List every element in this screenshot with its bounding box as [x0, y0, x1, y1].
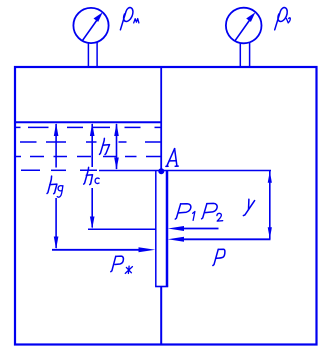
gauge V1 stem: [240, 43, 249, 68]
liquid dashes row 2: [20, 141, 161, 143]
liquid dashes row 4: [21, 169, 97, 171]
force P1 line with left arrow: [168, 226, 219, 231]
gauge V1 needle: [235, 12, 255, 40]
label P1: [175, 204, 195, 221]
level reference line at A: [99, 170, 161, 172]
partition slot left line: [155, 171, 157, 287]
dimension h_c vertical line: [90, 123, 95, 229]
label P: [213, 249, 225, 265]
middle partition wall upper segment: [160, 67, 162, 171]
liquid dashes row 1: [15, 126, 161, 128]
force P_zh line with right arrow: [52, 247, 155, 252]
label p_v: [275, 8, 291, 30]
dimension h vertical line: [114, 123, 119, 170]
partition slot bottom cap: [155, 286, 168, 288]
node A: [158, 168, 164, 174]
dimension y vertical line: [268, 171, 272, 239]
dimension h_c bottom line: [88, 228, 156, 230]
label h_c: [84, 167, 100, 184]
gauge M1 stem: [88, 43, 97, 68]
gauge M1 needle: [83, 12, 103, 40]
label y: [243, 199, 254, 215]
label P2: [202, 203, 223, 221]
gauge V1 body: [226, 8, 262, 44]
label p_m: [120, 8, 138, 30]
gauge M1 body: [73, 8, 108, 43]
label P_zh: [111, 256, 133, 273]
label h_g: [47, 176, 63, 197]
label h: [100, 138, 110, 154]
middle partition wall lower segment: [160, 287, 162, 346]
liquid surface line: [15, 121, 161, 123]
label A: [166, 149, 178, 167]
liquid dashes row 3: [15, 156, 161, 158]
force P line with left arrow: [168, 237, 271, 242]
dimension h_g vertical line: [54, 123, 59, 249]
partition slot right line: [166, 171, 169, 287]
tank outer box: [15, 67, 317, 345]
A level line right side: [161, 170, 271, 172]
